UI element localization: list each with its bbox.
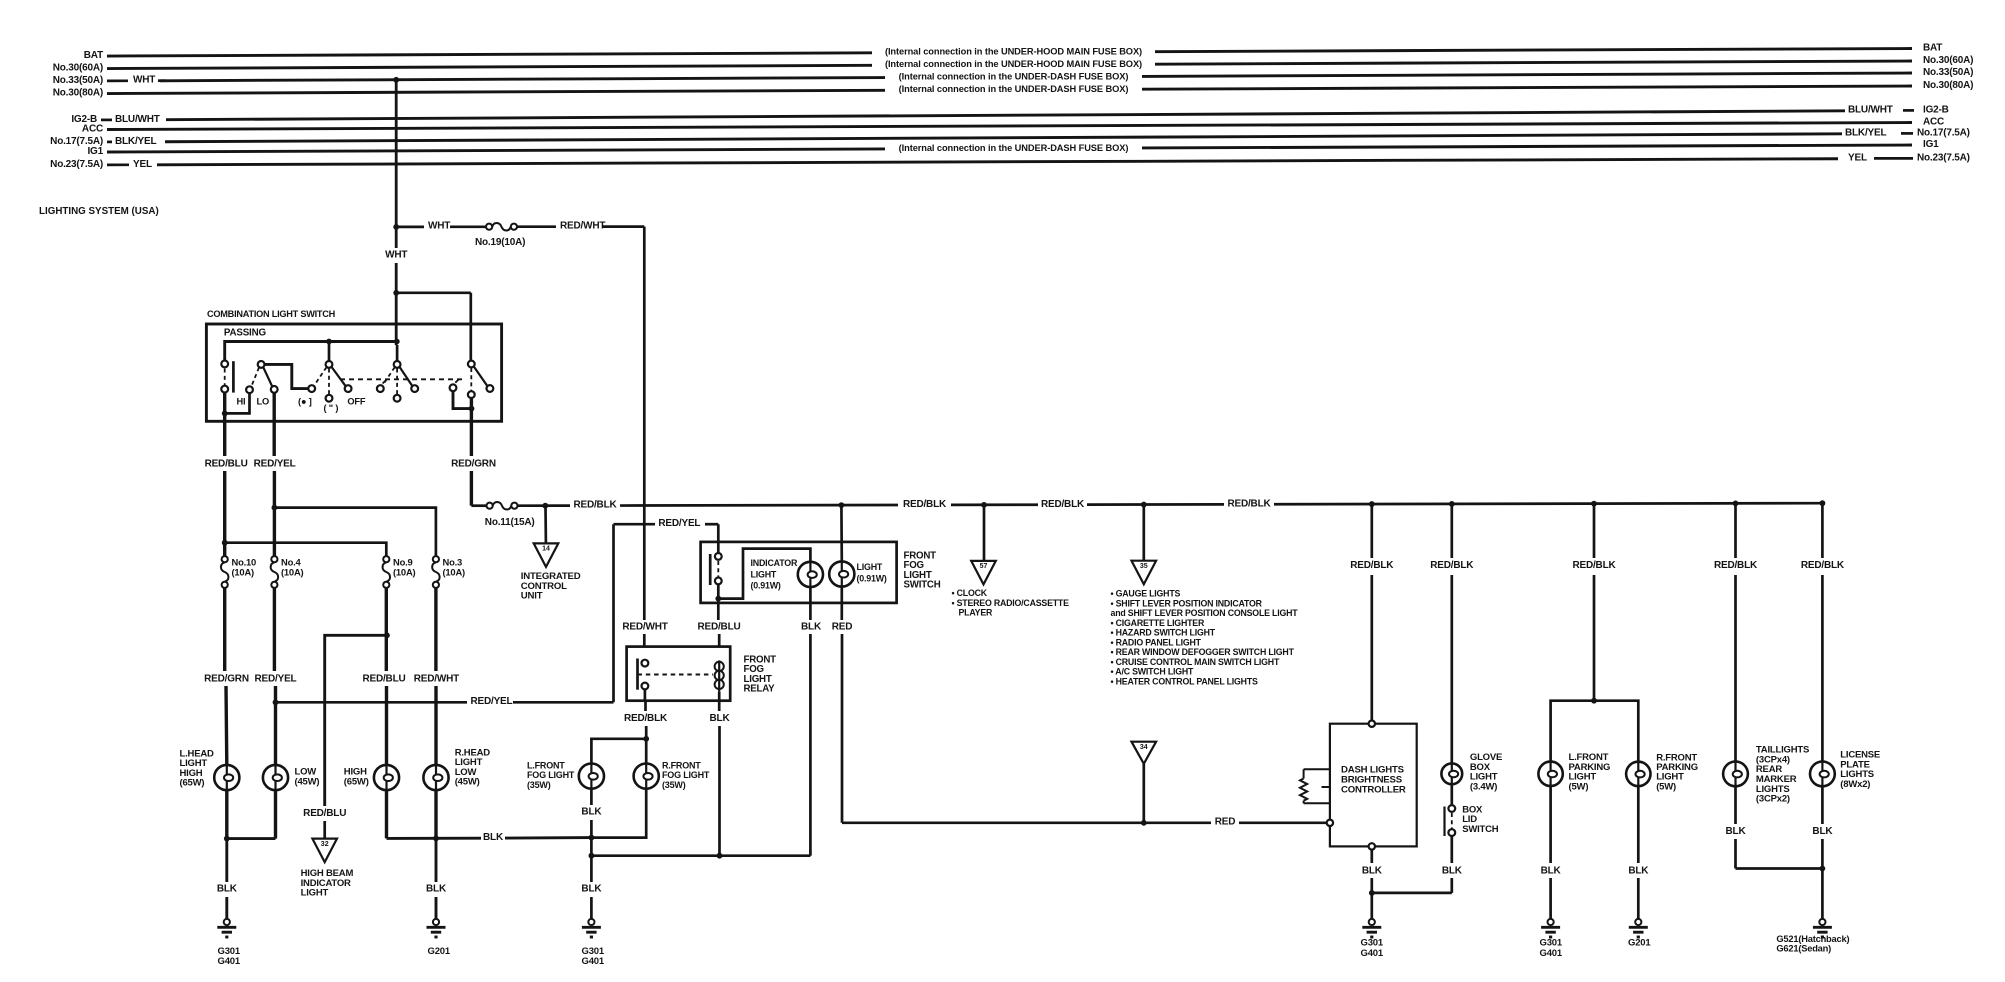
svg-text:RED/BLK: RED/BLK (1350, 560, 1394, 571)
node No.30(60A) (right) (1923, 55, 1973, 66)
svg-text:(Internal connection in the UN: (Internal connection in the UNDER-HOOD M… (885, 59, 1142, 69)
svg-text:IG2-B: IG2-B (1923, 104, 1949, 115)
fuse No.11(15A) (487, 502, 518, 510)
wire label RED/BLK (parking) (1572, 560, 1616, 571)
wire label RED (run) (1215, 817, 1236, 828)
wire label BLK (R.head) (426, 883, 447, 894)
svg-text:UNIT: UNIT (521, 591, 543, 602)
node junction RED feed (839, 502, 845, 508)
diagram title LIGHTING SYSTEM (USA) (39, 206, 159, 217)
second pole arm dashed mid (396, 369, 398, 395)
fog switch fixed bar (709, 554, 712, 585)
label TAILLIGHTS REAR MARKER LIGHTS (1756, 745, 1809, 805)
svg-text:(5W): (5W) (1656, 781, 1676, 792)
svg-text:BLK: BLK (710, 713, 731, 724)
wire label RED/GRN (451, 459, 496, 470)
node junction clock branch (981, 502, 987, 508)
wire label RED/BLU (205, 459, 248, 470)
lamp R.front parking light (1626, 762, 1650, 786)
svg-text:(0.91W): (0.91W) (751, 581, 781, 591)
wire label RED/YEL (run) (471, 696, 513, 707)
svg-text:No.23(7.5A): No.23(7.5A) (50, 159, 103, 170)
svg-text:RED/BLU: RED/BLU (303, 808, 346, 819)
svg-text:ACC: ACC (1923, 116, 1944, 127)
svg-text:BLK/YEL: BLK/YEL (1845, 128, 1886, 139)
svg-text:(3.4W): (3.4W) (1470, 781, 1497, 792)
ground label G301 G401 (fog) (582, 946, 605, 967)
svg-text:BLU/WHT: BLU/WHT (115, 114, 160, 125)
ground label G301 G401 (218, 946, 241, 967)
svg-text:BLK/YEL: BLK/YEL (115, 136, 156, 147)
wire fuse to RED/WHT (517, 225, 556, 228)
ground G521/G621 (1813, 919, 1832, 937)
label L.FRONT FOG LIGHT (35W) (527, 760, 575, 790)
contact relay top (642, 660, 649, 667)
svg-text:WHT: WHT (385, 250, 407, 261)
node No.23(7.5A) (left) (50, 159, 152, 170)
node junction third pole output (469, 406, 475, 412)
contact fog switch bottom (715, 578, 722, 585)
wire license ground (1821, 786, 1824, 919)
wire label BLK (L.head) (217, 883, 238, 894)
node junction ICU branch (542, 503, 548, 509)
dimmer arm solid to LO (263, 367, 272, 387)
contact second pole left (377, 380, 386, 392)
svg-text:(45W): (45W) (455, 777, 480, 788)
wire fuse No.10 to L.head bulb (225, 588, 227, 765)
svg-text:(● ]: (● ] (298, 396, 312, 406)
svg-text:G401: G401 (1540, 948, 1563, 959)
switch label (dot2) (324, 403, 339, 413)
svg-text:14: 14 (542, 546, 550, 553)
svg-text:BLK: BLK (1442, 866, 1463, 877)
node No.17(7.5A) (left) (50, 136, 156, 147)
lighting switch arm dashed to pos1 (314, 367, 327, 386)
combination light switch label (207, 309, 336, 319)
svg-text:G201: G201 (428, 946, 451, 957)
node No.17(7.5A) (right) (1845, 127, 1970, 138)
node junction RED/BLU tap (222, 540, 228, 546)
contact dimmer HI (246, 386, 253, 393)
front fog light switch box (701, 542, 897, 603)
svg-text:RED/BLK: RED/BLK (1714, 560, 1758, 571)
node junction fog ground 1 (589, 835, 595, 841)
svg-text:• SHIFT LEVER POSITION INDICAT: • SHIFT LEVER POSITION INDICATOR (1111, 598, 1263, 608)
svg-text:No.30(80A): No.30(80A) (53, 87, 103, 98)
node No.30(80A) (right) (1923, 80, 1973, 91)
lamp L.head low (263, 765, 288, 790)
fog switch movable dash (717, 561, 719, 578)
svg-text:RED/GRN: RED/GRN (204, 673, 249, 684)
contact dimmer LO (271, 386, 278, 393)
wire controller ground (1370, 850, 1373, 919)
svg-text:• REAR WINDOW DEFOGGER SWITCH: • REAR WINDOW DEFOGGER SWITCH LIGHT (1111, 647, 1295, 657)
node junction relay coil ground (717, 853, 723, 859)
wire label RED/BLK (4) (1227, 498, 1271, 509)
ground G201 (parking) (1629, 919, 1648, 937)
wire BLK bus to indicator (591, 854, 810, 857)
lighting switch arm solid to OFF (332, 367, 346, 386)
node junction gauge branch (1141, 502, 1147, 508)
wire L.head ground bus (227, 790, 276, 839)
wire R.parking ground (1637, 786, 1640, 919)
svg-text:LIGHT: LIGHT (751, 569, 777, 579)
wire L.parking ground (1549, 786, 1552, 919)
wire label RED/BLU (indicator) (303, 808, 346, 819)
switch label LO (257, 396, 270, 406)
passing switch fixed bar (232, 361, 235, 392)
wire label RED/GRN (headlight) (204, 673, 249, 684)
wire to R fog lamp (645, 739, 648, 763)
svg-text:No.17(7.5A): No.17(7.5A) (1917, 127, 1970, 138)
svg-text:RED: RED (1215, 817, 1236, 828)
label LOW (45W) (295, 767, 320, 788)
fuse No.19(10A) (486, 223, 517, 231)
lamp L.front parking light (1538, 762, 1562, 786)
svg-text:(35W): (35W) (527, 780, 551, 790)
contact passing switch bottom (221, 386, 228, 393)
wire label BLK (controller) (1362, 866, 1383, 877)
wire relay coil to BLK (718, 692, 721, 701)
svg-text:RELAY: RELAY (744, 684, 776, 695)
node No.33(50A) (left) (53, 75, 166, 86)
wire controller feed (1370, 504, 1373, 720)
svg-text:BLK: BLK (581, 883, 602, 894)
fuse label No.10 (10A) (232, 556, 257, 577)
wire label BLK (L fog) (581, 806, 602, 817)
svg-text:No.11(15A): No.11(15A) (485, 517, 535, 528)
ground G201 (headlight) (427, 919, 446, 937)
svg-text:35: 35 (1140, 563, 1148, 570)
svg-text:RED/BLK: RED/BLK (1430, 560, 1474, 571)
dimmer arm dashed to HI (251, 368, 259, 387)
node BAT (left) (84, 50, 103, 61)
svg-text:No.33(50A): No.33(50A) (53, 75, 103, 86)
fuse label No.4 (10A) (281, 556, 304, 577)
wire fog switch output (717, 584, 720, 603)
contact second pole pivot (394, 361, 401, 368)
svg-text:WHT: WHT (133, 75, 155, 86)
lamp license plate lights (1810, 762, 1835, 787)
svg-text:BAT: BAT (84, 50, 103, 61)
box lid switch bar (1443, 807, 1445, 837)
wire RED run to controller (842, 821, 1327, 824)
wire label BLK (license) (1812, 826, 1833, 837)
wire WHT vertical (395, 80, 398, 345)
wire label RED/BLK (2) (903, 499, 947, 510)
contact dimmer pivot (258, 361, 265, 368)
label DASH LIGHTS BRIGHTNESS CONTROLLER (1341, 765, 1406, 796)
contact lighting switch pivot (326, 361, 333, 368)
contact box lid switch top (1448, 805, 1455, 812)
second pole feed (396, 345, 399, 361)
lamp glove box light (1441, 763, 1462, 784)
svg-text:RED/YEL: RED/YEL (471, 696, 513, 707)
wire R fog ground (591, 789, 646, 838)
wire ICU drop (544, 506, 547, 544)
terminal controller bottom (1369, 843, 1375, 849)
label BOX LID SWITCH (1462, 804, 1499, 835)
wire RED/BLU output (223, 445, 226, 556)
svg-text:RED/WHT: RED/WHT (560, 221, 605, 232)
svg-text:BLK: BLK (1541, 866, 1562, 877)
wire label RED (switch light) (832, 622, 853, 633)
lamp R.head low (423, 765, 448, 790)
svg-text:RED/BLK: RED/BLK (1572, 560, 1616, 571)
svg-text:LIGHT: LIGHT (857, 562, 883, 572)
fuse label No.19(10A) (475, 237, 525, 248)
svg-text:• STEREO RADIO/CASSETTE: • STEREO RADIO/CASSETTE (952, 598, 1070, 608)
wire RED switch light drop (840, 587, 843, 823)
svg-text:• GAUGE LIGHTS: • GAUGE LIGHTS (1111, 589, 1181, 599)
contact lighting switch mid (326, 395, 333, 402)
svg-text:INDICATOR: INDICATOR (751, 558, 798, 568)
label HIGH BEAM INDICATOR LIGHT (301, 868, 354, 898)
label FRONT FOG LIGHT RELAY (744, 655, 777, 695)
wire label RED/BLK (license) (1801, 560, 1845, 571)
node junction R.head ground (433, 836, 439, 842)
wire label RED/WHT (headlight) (414, 673, 459, 684)
svg-text:(35W): (35W) (662, 780, 686, 790)
dash lights brightness controller box (1330, 724, 1417, 847)
svg-text:IG1: IG1 (87, 146, 103, 157)
svg-text:57: 57 (980, 563, 988, 570)
terminal controller top (1369, 721, 1375, 727)
svg-text:YEL: YEL (133, 159, 152, 170)
switch label (dot1) (298, 396, 312, 406)
ground G301/G401 (headlight) (217, 919, 236, 937)
wire label RED/BLU (relay) (697, 622, 740, 633)
label GLOVE BOX LIGHT (3.4W) (1470, 752, 1502, 792)
wire bus No.17(7.5A) (165, 134, 1842, 142)
node junction 34 branch (1141, 820, 1147, 826)
wire lighting switch pole feed (328, 342, 331, 361)
wire bus No.23(7.5A) (157, 159, 1838, 165)
wire glove switch ground (1372, 836, 1452, 893)
wire parking feed (1593, 504, 1596, 701)
lamp R.head high (374, 765, 399, 790)
relay fixed bar (636, 659, 639, 690)
svg-text:G621(Sedan): G621(Sedan) (1776, 944, 1831, 954)
switch label HI (237, 396, 246, 406)
connector 57 triangle (971, 561, 996, 585)
wire L fog ground (590, 789, 593, 838)
svg-text:No.23(7.5A): No.23(7.5A) (1917, 152, 1970, 163)
third pole arm dashed mid (470, 368, 472, 391)
svg-text:No.30(60A): No.30(60A) (53, 62, 103, 73)
node junction parking split (1591, 698, 1597, 704)
svg-text:RED/BLK: RED/BLK (1041, 499, 1085, 510)
label gauge lights list (1111, 589, 1299, 687)
svg-text:G401: G401 (218, 956, 241, 967)
wire WHT to fuse No.19 (396, 226, 424, 229)
svg-text:LO: LO (257, 396, 270, 406)
svg-text:FOG LIGHT: FOG LIGHT (662, 770, 710, 780)
wire RED/YEL to fuse No.3 (274, 508, 436, 557)
wire label RED/BLK (controller) (1350, 560, 1394, 571)
svg-text:No.30(60A): No.30(60A) (1923, 55, 1973, 66)
wire label WHT (fuse branch) (428, 221, 450, 232)
svg-text:RED/WHT: RED/WHT (622, 622, 667, 633)
ground label G301 G401 (controller) (1361, 938, 1384, 959)
node IG1 (left) (87, 146, 103, 157)
node ACC (left) (82, 124, 103, 135)
wire label BLK (L.parking) (1541, 866, 1562, 877)
svg-text:(3CPx2): (3CPx2) (1756, 794, 1790, 805)
svg-text:• HEATER CONTROL PANEL LIGHTS: • HEATER CONTROL PANEL LIGHTS (1111, 676, 1258, 686)
svg-text:(10A): (10A) (443, 566, 466, 577)
relay link dashed (638, 674, 714, 676)
svg-text:G521(Hatchback): G521(Hatchback) (1776, 934, 1849, 944)
svg-text:PASSING: PASSING (224, 328, 267, 339)
svg-text:G401: G401 (1361, 948, 1384, 959)
combination light switch box (206, 324, 501, 421)
svg-text:RED/BLU: RED/BLU (362, 673, 405, 684)
ground label G301 G401 (parking) (1540, 938, 1563, 959)
node junction license feed (1820, 500, 1826, 506)
wire label BLK (fog bus) (483, 832, 504, 843)
wire label RED/BLK (fog) (624, 713, 668, 724)
wire third pole output (470, 398, 473, 445)
fuse label No.3 (10A) (443, 556, 466, 577)
lamp fog switch light (829, 561, 854, 586)
wire bus BAT (107, 47, 1912, 57)
svg-text:R.FRONT: R.FRONT (662, 760, 701, 770)
svg-text:RED/YEL: RED/YEL (255, 673, 297, 684)
contact third pole left (450, 379, 459, 391)
node junction fog switch output (715, 596, 721, 602)
lamp L.front fog light (579, 764, 604, 789)
wire 34 drop (1142, 764, 1145, 823)
svg-text:( ʺ ): ( ʺ ) (324, 403, 339, 413)
svg-text:• HAZARD SWITCH LIGHT: • HAZARD SWITCH LIGHT (1111, 628, 1216, 638)
wire L.head BLK drop (225, 839, 228, 919)
svg-text:L.FRONT: L.FRONT (527, 760, 565, 770)
wire RED/WHT down to relay (603, 227, 644, 647)
wire passing bottom to output (223, 393, 226, 445)
svg-text:(8Wx2): (8Wx2) (1840, 779, 1870, 790)
fuse No.9(10A) (383, 556, 391, 588)
wire RED/BLU to fuse No.9 (225, 543, 387, 557)
lamp L.head high (214, 765, 239, 790)
contact lighting switch position 1 (308, 385, 315, 392)
node IG2-B (right) (1848, 104, 1949, 115)
node WHT tap on No.33(50A) (393, 77, 399, 83)
wire label RED/BLK (3) (1041, 499, 1085, 510)
svg-text:WHT: WHT (428, 221, 450, 232)
svg-text:(10A): (10A) (232, 566, 255, 577)
svg-text:No.19(10A): No.19(10A) (475, 237, 525, 248)
label R.HEAD LIGHT LOW (45W) (455, 747, 491, 787)
wire indicator drop (323, 821, 326, 839)
wire R.head ground bus (387, 790, 592, 838)
label FRONT FOG LIGHT SWITCH (904, 551, 941, 591)
svg-text:RED: RED (832, 622, 853, 633)
node junction RED/YEL fog feed (273, 699, 279, 705)
wire label RED/WHT (relay) (622, 622, 667, 633)
second pole arm dashed left (382, 367, 395, 386)
svg-text:(5W): (5W) (1569, 781, 1589, 792)
svg-text:RED/BLK: RED/BLK (1801, 560, 1845, 571)
svg-text:FOG LIGHT: FOG LIGHT (527, 770, 575, 780)
svg-text:RED/BLU: RED/BLU (697, 622, 740, 633)
node junction HI wire (222, 411, 228, 417)
label R.FRONT FOG LIGHT (35W) (662, 760, 710, 790)
fuse label No.11(15A) (485, 517, 535, 528)
wire label BLK (relay) (710, 713, 731, 724)
svg-text:• A/C SWITCH LIGHT: • A/C SWITCH LIGHT (1111, 667, 1195, 677)
svg-text:BLK: BLK (1628, 866, 1649, 877)
wire to L fog lamp (591, 739, 646, 763)
wire fuse No.11 to bus (517, 504, 570, 507)
svg-text:No.33(50A): No.33(50A) (1923, 67, 1973, 78)
node junction controller ground (1369, 890, 1375, 896)
node junction fog lamp split (643, 736, 649, 742)
mechanical link dashed (340, 378, 464, 380)
wire fog BLK drop (590, 856, 593, 919)
contact second pole right (411, 385, 418, 392)
node No.30(60A) (left) (53, 62, 103, 73)
svg-text:SWITCH: SWITCH (904, 580, 941, 591)
resistor controller (1300, 769, 1330, 803)
terminal controller left (1327, 820, 1333, 826)
wire bus No.33(50A) (160, 71, 1912, 81)
wire high-beam indicator branch (325, 635, 387, 806)
lamp fog indicator light (798, 562, 823, 587)
svg-text:LIGHTING SYSTEM (USA): LIGHTING SYSTEM (USA) (39, 206, 159, 217)
svg-text:IG1: IG1 (1923, 139, 1939, 150)
wire dimmer pivot to headlight contact (265, 364, 309, 388)
wire bus IG2-B (166, 111, 1845, 120)
svg-text:BAT: BAT (1923, 43, 1942, 54)
svg-text:BLK: BLK (483, 832, 504, 843)
label R.FRONT PARKING LIGHT (5W) (1656, 752, 1698, 792)
svg-text:G201: G201 (1628, 938, 1651, 949)
svg-text:BLK: BLK (1812, 826, 1833, 837)
passing switch movable dash (224, 369, 226, 386)
wire clock drop (983, 505, 986, 561)
wire label BLK (indicator) (801, 622, 822, 633)
contact third pole right (487, 385, 494, 392)
wire glove bulb to switch (1450, 784, 1453, 805)
svg-text:(Internal connection in the UN: (Internal connection in the UNDER-HOOD M… (885, 47, 1142, 57)
label HIGH (65W) (344, 767, 369, 788)
wire RED/BLU to relay coil (717, 603, 721, 647)
label LIGHT (0.91W) (857, 562, 887, 583)
wire label RED/BLU (headlight) (362, 673, 405, 684)
svg-text:RED/GRN: RED/GRN (451, 459, 496, 470)
wire label RED/BLK (taillight) (1714, 560, 1758, 571)
svg-text:HI: HI (237, 396, 246, 406)
label L.HEAD LIGHT HIGH (65W) (180, 748, 215, 788)
ground label G201 (parking) (1628, 938, 1651, 949)
fuse No.3(10A) (432, 556, 440, 588)
svg-text:• CLOCK: • CLOCK (952, 588, 988, 598)
wire label RED/BLK (1) (573, 499, 617, 510)
node junction controller feed (1369, 501, 1375, 507)
svg-text:(65W): (65W) (180, 778, 205, 789)
contact second pole mid (394, 395, 401, 402)
svg-text:RED/WHT: RED/WHT (414, 673, 459, 684)
wire label BLK (fog drop) (581, 883, 602, 894)
wire RED feed to switch light (840, 505, 843, 561)
node junction L.head ground (224, 836, 230, 842)
wire RED/BLK bus (620, 503, 1822, 505)
svg-text:and SHIFT LEVER POSITION CONSO: and SHIFT LEVER POSITION CONSOLE LIGHT (1111, 608, 1299, 618)
svg-text:• RADIO PANEL LIGHT: • RADIO PANEL LIGHT (1111, 637, 1202, 647)
label LICENSE PLATE LIGHTS (8Wx2) (1840, 750, 1880, 790)
wire label RED/YEL (headlight) (255, 673, 297, 684)
